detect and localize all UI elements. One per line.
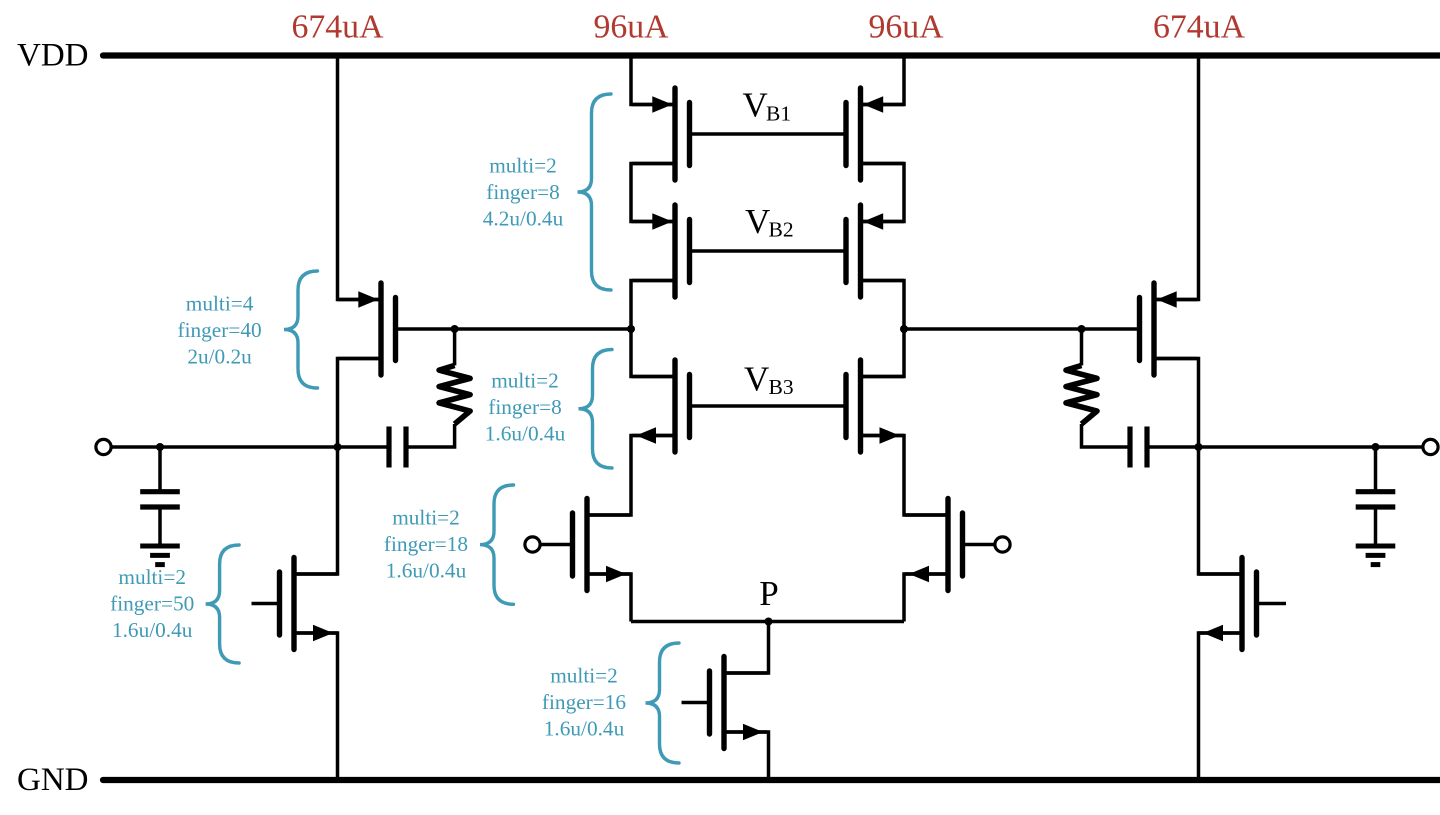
wire M3 drain to M4 source — [631, 164, 673, 222]
wire M6 gate — [540, 543, 574, 547]
pmos M3 cascode VB1 left (multi=2 finger=8) — [632, 88, 690, 180]
node VB1 label — [743, 86, 792, 126]
svg-text:674uA: 674uA — [291, 8, 384, 45]
svg-text:multi=2: multi=2 — [489, 154, 557, 178]
annotation multi=2 finger=18 — [384, 505, 468, 582]
svg-text:finger=40: finger=40 — [178, 318, 262, 342]
pmos M4 cascode VB2 left (multi=2 finger=8) — [632, 205, 690, 297]
wire node P — [631, 620, 904, 624]
svg-text:multi=2: multi=2 — [118, 565, 186, 589]
brace cascode VB3 pair — [579, 350, 613, 469]
svg-text:4.2u/0.4u: 4.2u/0.4u — [483, 207, 564, 231]
brace tail current source — [646, 643, 680, 763]
GND rail — [103, 777, 1440, 783]
nmos M13 output driver right (multi=2 finger=50) — [1199, 558, 1257, 650]
brace cascode VB1 VB2 pair — [578, 94, 612, 290]
wire M11 gate stub — [682, 701, 712, 705]
wire branch right to M13 drain — [1199, 447, 1241, 574]
output terminal right — [1423, 439, 1438, 454]
wire VB2 gate net — [690, 249, 847, 253]
ground symbol right — [1356, 546, 1396, 565]
wire branch left to M2 drain — [296, 447, 338, 574]
svg-text:finger=16: finger=16 — [542, 690, 627, 714]
input terminal diff right — [995, 537, 1010, 552]
VDD rail — [103, 52, 1440, 58]
nmos M2 output driver left (multi=2 finger=50) — [280, 558, 338, 650]
capacitor C1 input shunt left — [140, 447, 180, 546]
nmos M5 cascode VB3 left (multi=2 finger=8) — [632, 360, 690, 452]
current label 96uA right — [868, 8, 944, 45]
current label 674uA right — [1153, 8, 1246, 45]
wire VB1 gate net — [690, 132, 847, 136]
capacitor C2 compensation left — [389, 427, 406, 468]
nmos M11 tail current source (multi=2 finger=16) — [710, 657, 768, 749]
wire M13 gate stub — [1258, 602, 1286, 606]
brace mirror pmos left — [284, 271, 318, 388]
nmos M9 cascode VB3 right (multi=2 finger=8) — [846, 360, 904, 452]
wire M2 gate stub — [252, 602, 282, 606]
wire M12 drain to output node — [1156, 359, 1199, 448]
svg-text:finger=8: finger=8 — [486, 180, 560, 204]
svg-text:1.6u/0.4u: 1.6u/0.4u — [112, 618, 193, 642]
wire resistor R1 top — [453, 329, 457, 365]
svg-text:B2: B2 — [769, 218, 794, 242]
wire M9 source to M10 drain — [862, 436, 946, 516]
nmos M10 input pair right (multi=2 finger=18) — [905, 499, 963, 591]
svg-text:2u/0.2u: 2u/0.2u — [187, 345, 252, 369]
wire M6 source to node P — [589, 574, 631, 622]
svg-text:96uA: 96uA — [593, 8, 669, 45]
node P label — [759, 574, 778, 613]
annotation multi=4 finger=40 — [178, 292, 262, 369]
wire input net left — [111, 445, 389, 449]
node A resistor tap junction — [451, 325, 459, 333]
current label 674uA left — [291, 8, 384, 45]
pmos M1 left current mirror (multi=4 finger=40) — [338, 283, 396, 375]
wire resistor R2 top — [1080, 329, 1084, 365]
wire M1 drain to input node — [338, 359, 380, 448]
svg-text:1.6u/0.4u: 1.6u/0.4u — [386, 558, 467, 582]
svg-text:V: V — [744, 360, 769, 399]
svg-text:1.6u/0.4u: 1.6u/0.4u — [485, 421, 566, 445]
node P junction — [765, 618, 773, 626]
current label 96uA left — [593, 8, 669, 45]
wire M1 gate to node A — [396, 327, 632, 331]
svg-text:B3: B3 — [769, 375, 794, 399]
svg-text:VDD: VDD — [17, 38, 89, 74]
svg-text:multi=2: multi=2 — [491, 368, 559, 392]
svg-text:674uA: 674uA — [1153, 8, 1246, 45]
junction node B right mid — [900, 325, 908, 333]
svg-text:finger=50: finger=50 — [110, 592, 194, 616]
svg-text:P: P — [759, 574, 778, 613]
wire output net right — [1147, 445, 1423, 449]
input terminal left — [96, 439, 111, 454]
pmos M8 cascode VB2 right (multi=2 finger=8) — [846, 205, 904, 297]
svg-text:96uA: 96uA — [868, 8, 944, 45]
pmos M7 cascode VB1 right (multi=2 finger=8) — [846, 88, 904, 180]
svg-text:finger=8: finger=8 — [488, 395, 562, 419]
junction node A left mid — [627, 325, 635, 333]
wire M10 source to node P — [904, 574, 946, 622]
wire M7 drain to M8 source — [862, 164, 904, 222]
annotation multi=2 finger=50 — [110, 565, 194, 642]
resistor R2 compensation right — [1066, 365, 1097, 424]
input terminal diff left — [525, 537, 540, 552]
wire resistor R2 bottom to C3 — [1082, 424, 1131, 447]
junction output / branch right — [1195, 443, 1203, 451]
capacitor C3 compensation right — [1130, 427, 1147, 468]
resistor R1 compensation left — [439, 365, 470, 424]
svg-text:B1: B1 — [766, 101, 791, 125]
wire M4 drain to node A — [631, 281, 673, 330]
svg-text:V: V — [743, 86, 768, 125]
junction input / shunt cap left — [156, 443, 164, 451]
brace input pair — [480, 485, 514, 604]
wire resistor R1 bottom to C2 — [406, 424, 455, 447]
svg-text:multi=2: multi=2 — [550, 664, 618, 688]
svg-text:V: V — [745, 202, 770, 241]
wire M2 source to GND — [296, 633, 338, 780]
annotation multi=2 finger=8 1.6u — [485, 368, 566, 445]
VDD net label — [17, 38, 89, 74]
svg-text:multi=2: multi=2 — [392, 505, 460, 529]
wire M5 source to M6 drain — [589, 436, 673, 516]
wire M11 drain to node P — [726, 622, 769, 674]
svg-text:1.6u/0.4u: 1.6u/0.4u — [544, 717, 625, 741]
wire VDD to M7 source — [862, 56, 904, 105]
ground symbol left — [140, 546, 180, 565]
node VB2 label — [745, 202, 794, 242]
wire M10 gate — [964, 543, 995, 547]
node B resistor tap junction — [1078, 325, 1086, 333]
svg-text:GND: GND — [17, 762, 89, 798]
wire M11 source to GND — [726, 732, 769, 780]
wire M13 source to GND — [1199, 633, 1241, 780]
wire node B to M9 drain — [862, 329, 904, 377]
node VB3 label — [744, 360, 794, 400]
junction output / shunt cap right — [1372, 443, 1380, 451]
svg-text:finger=18: finger=18 — [384, 532, 468, 556]
brace output driver left — [206, 545, 240, 663]
junction input / branch left — [334, 443, 342, 451]
wire M8 drain to node B — [862, 281, 904, 330]
annotation multi=2 finger=16 — [542, 664, 627, 741]
wire VDD to M3 source — [631, 56, 673, 105]
GND net label — [17, 762, 89, 798]
annotation multi=2 finger=8 4.2u — [483, 154, 564, 231]
wire M12 gate to node B — [904, 327, 1140, 331]
wire VB3 gate net — [690, 404, 847, 408]
wire VDD to M12 source — [1156, 56, 1199, 300]
nmos M6 input pair left (multi=2 finger=18) — [573, 499, 631, 591]
svg-text:multi=4: multi=4 — [186, 292, 254, 316]
pmos M12 right current mirror (multi=4 finger=40) — [1140, 283, 1198, 375]
wire node A to M5 drain — [631, 329, 673, 377]
wire VDD to M1 source — [338, 56, 380, 300]
capacitor C4 output shunt right — [1356, 447, 1396, 546]
